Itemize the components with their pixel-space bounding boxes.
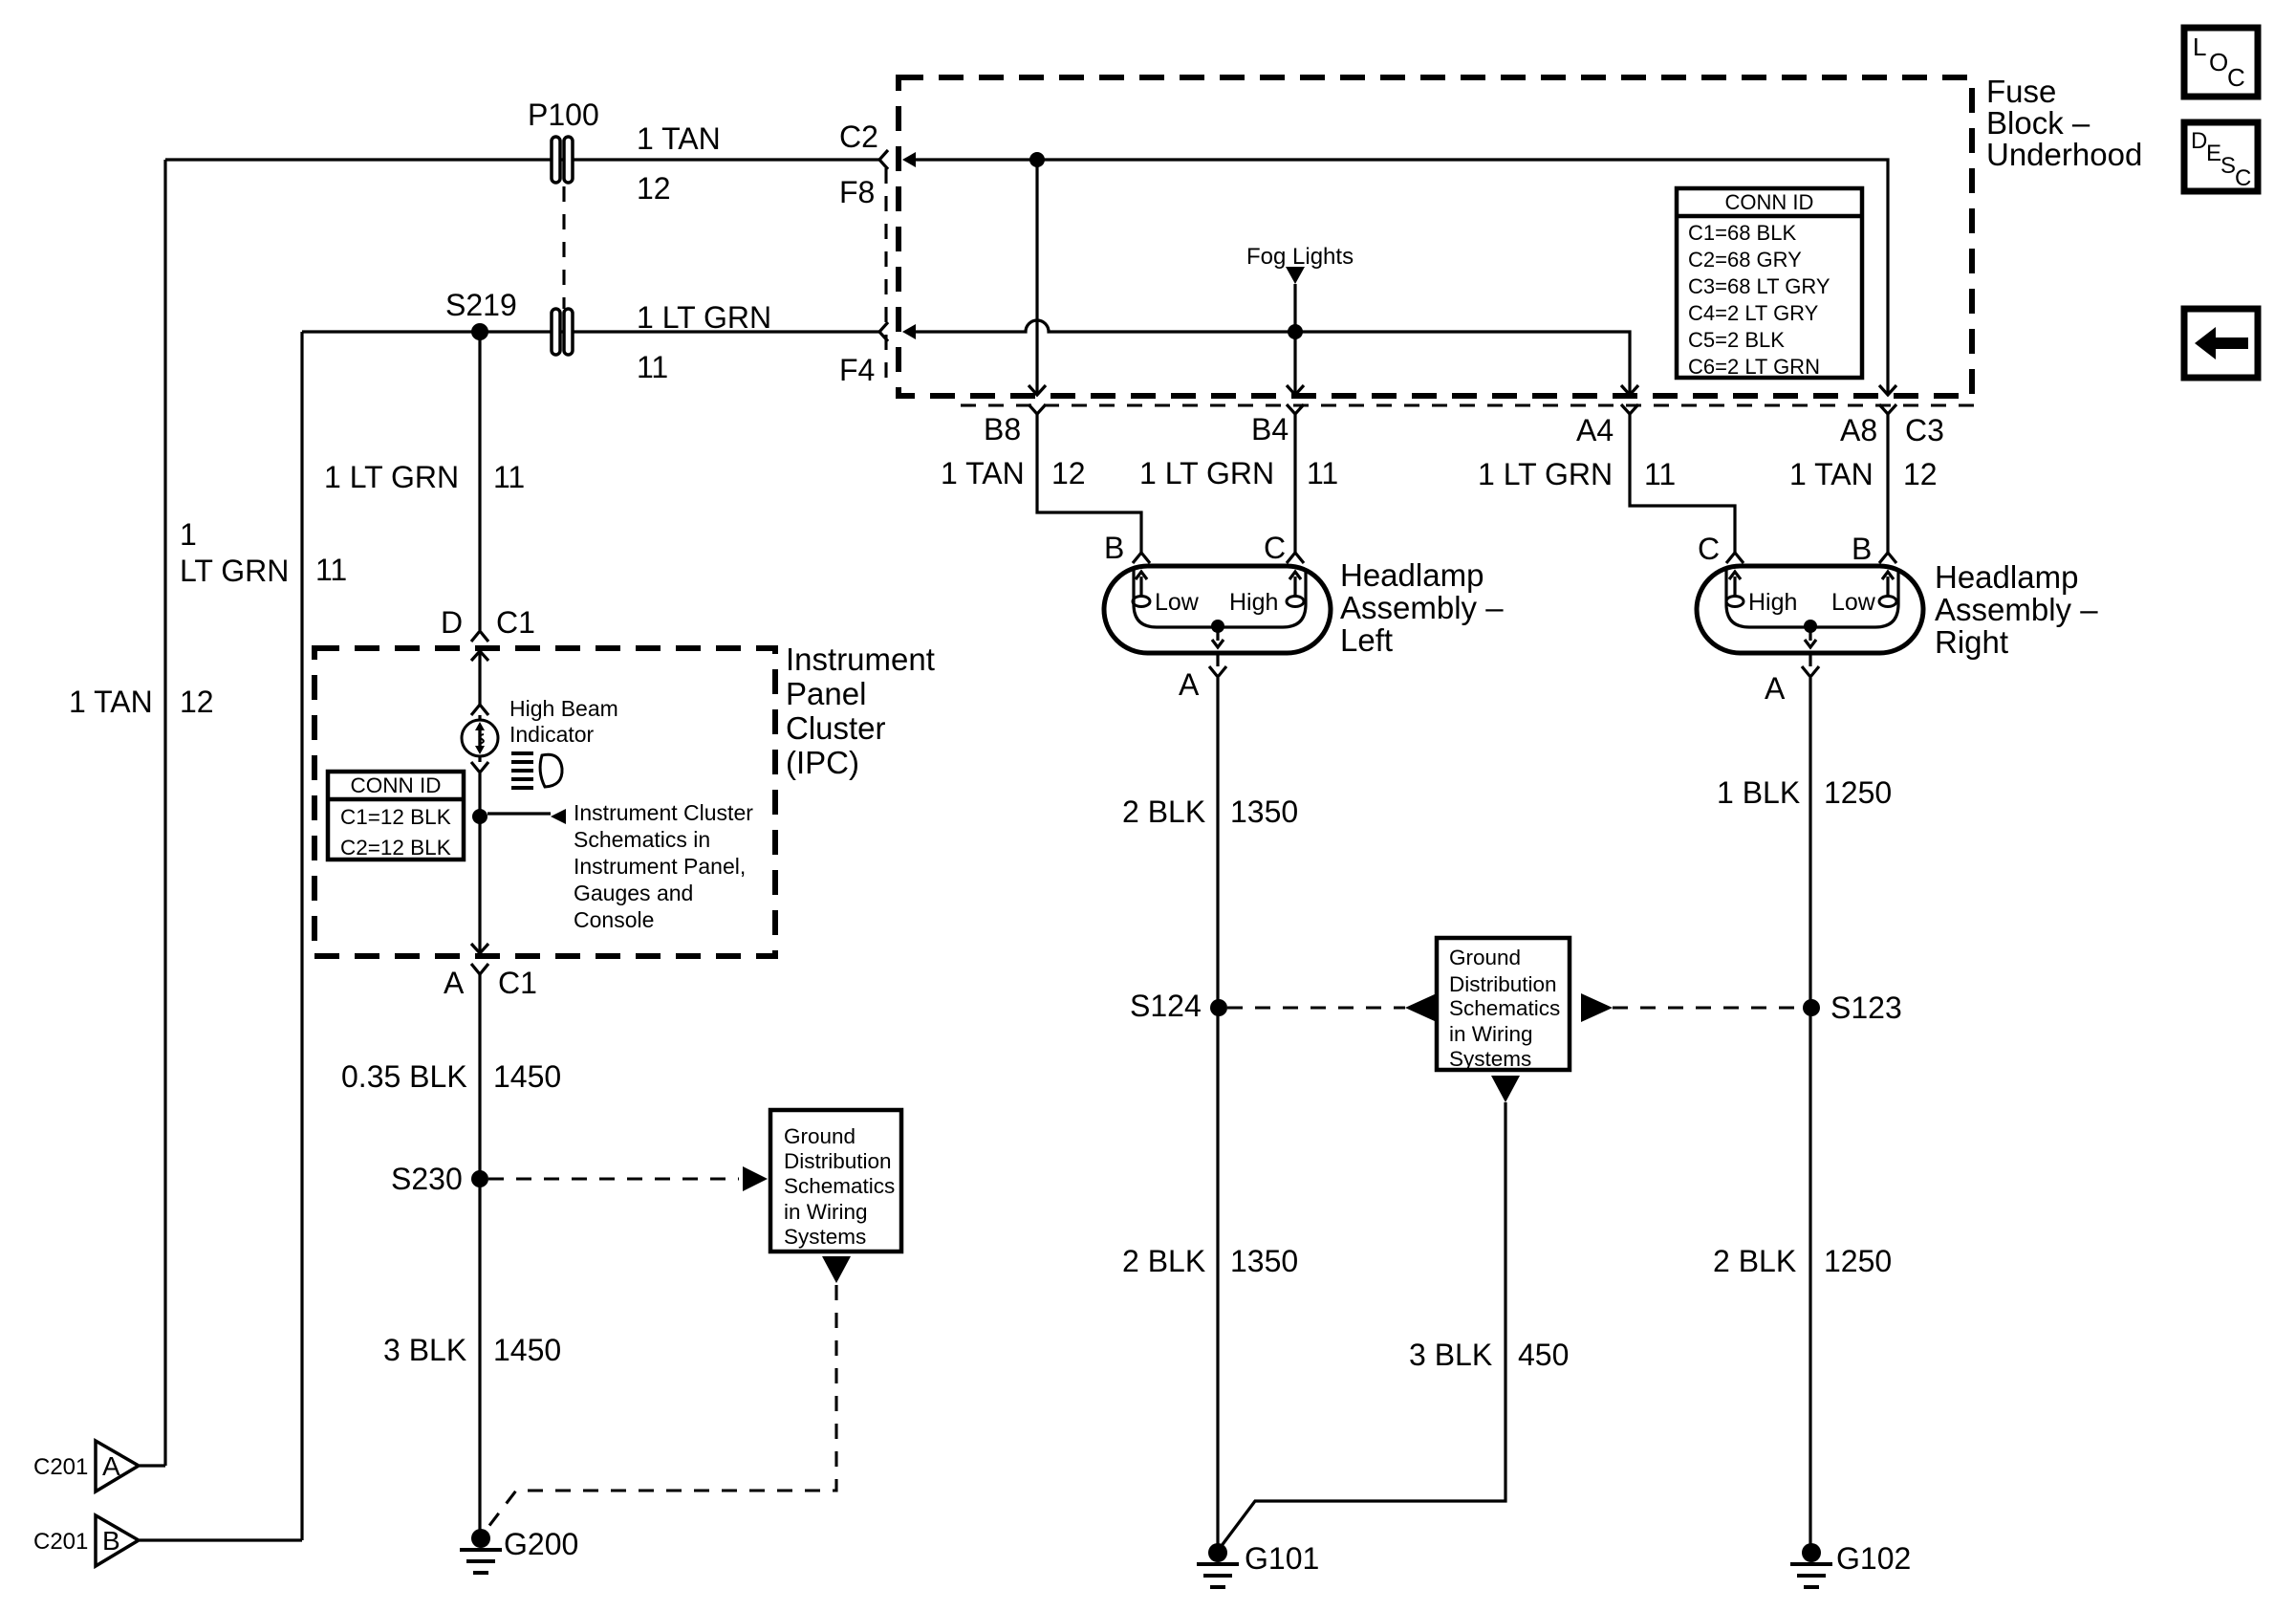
svg-text:C6=2 LT GRN: C6=2 LT GRN — [1688, 355, 1820, 379]
svg-text:1450: 1450 — [493, 1059, 561, 1094]
svg-text:B4: B4 — [1251, 412, 1289, 446]
svg-text:Block –: Block – — [1986, 105, 2090, 141]
svg-text:Console: Console — [574, 907, 654, 932]
svg-text:C: C — [2235, 165, 2251, 191]
svg-text:High Beam: High Beam — [509, 696, 618, 721]
svg-text:LT GRN: LT GRN — [180, 554, 289, 588]
svg-text:G101: G101 — [1245, 1541, 1319, 1576]
svg-text:C1=68 BLK: C1=68 BLK — [1688, 221, 1796, 245]
svg-text:A: A — [102, 1451, 120, 1481]
svg-text:11: 11 — [315, 553, 347, 587]
svg-text:C5=2 BLK: C5=2 BLK — [1688, 328, 1785, 352]
svg-text:Cluster: Cluster — [786, 710, 886, 746]
svg-text:Low: Low — [1155, 589, 1200, 616]
svg-text:S: S — [2220, 153, 2236, 179]
svg-text:Indicator: Indicator — [509, 722, 595, 747]
svg-text:C1: C1 — [498, 966, 537, 1000]
svg-text:Headlamp: Headlamp — [1935, 559, 2078, 595]
svg-text:High: High — [1229, 589, 1278, 616]
svg-text:Headlamp: Headlamp — [1340, 557, 1484, 593]
svg-text:L: L — [2193, 33, 2206, 61]
svg-text:Distribution: Distribution — [784, 1149, 892, 1173]
svg-text:S219: S219 — [445, 288, 517, 322]
svg-text:CONN ID: CONN ID — [1725, 190, 1814, 214]
svg-text:Ground: Ground — [1449, 946, 1521, 969]
svg-text:Assembly –: Assembly – — [1935, 592, 2098, 627]
svg-text:D: D — [2191, 128, 2207, 154]
svg-text:C1: C1 — [496, 605, 535, 640]
svg-text:1 TAN: 1 TAN — [941, 456, 1025, 490]
svg-text:0.35 BLK: 0.35 BLK — [341, 1059, 467, 1094]
svg-text:S124: S124 — [1130, 989, 1202, 1023]
svg-text:Instrument Panel,: Instrument Panel, — [574, 854, 746, 879]
svg-text:A8: A8 — [1840, 413, 1877, 447]
svg-text:1 LT GRN: 1 LT GRN — [637, 300, 771, 335]
svg-text:C2: C2 — [839, 120, 878, 154]
svg-text:450: 450 — [1518, 1338, 1569, 1372]
svg-text:A: A — [1179, 667, 1200, 702]
svg-text:High: High — [1748, 589, 1797, 616]
svg-text:Instrument: Instrument — [786, 642, 935, 677]
svg-text:1 LT GRN: 1 LT GRN — [1478, 457, 1613, 491]
svg-text:Systems: Systems — [784, 1225, 866, 1249]
svg-text:3 BLK: 3 BLK — [1409, 1338, 1492, 1372]
svg-text:B: B — [1852, 532, 1872, 566]
svg-text:Ground: Ground — [784, 1124, 856, 1148]
svg-text:Schematics in: Schematics in — [574, 827, 710, 852]
svg-text:2 BLK: 2 BLK — [1122, 795, 1205, 829]
svg-text:1 TAN: 1 TAN — [637, 121, 721, 156]
svg-text:Systems: Systems — [1449, 1047, 1531, 1071]
svg-text:Right: Right — [1935, 624, 2008, 660]
svg-text:C: C — [2227, 63, 2245, 92]
svg-text:C: C — [1698, 532, 1720, 566]
svg-text:2 BLK: 2 BLK — [1122, 1244, 1205, 1278]
svg-text:1350: 1350 — [1230, 795, 1298, 829]
svg-text:12: 12 — [180, 685, 214, 719]
svg-text:C3: C3 — [1905, 413, 1944, 447]
svg-text:Assembly –: Assembly – — [1340, 590, 1504, 625]
svg-text:Schematics: Schematics — [784, 1174, 895, 1198]
svg-text:G102: G102 — [1836, 1541, 1911, 1576]
svg-text:F4: F4 — [839, 353, 875, 387]
svg-text:1250: 1250 — [1824, 775, 1892, 810]
svg-text:1250: 1250 — [1824, 1244, 1892, 1278]
svg-text:P100: P100 — [528, 98, 599, 132]
svg-text:C4=2 LT GRY: C4=2 LT GRY — [1688, 301, 1819, 325]
svg-text:C201: C201 — [33, 1529, 88, 1555]
svg-text:1350: 1350 — [1230, 1244, 1298, 1278]
svg-text:12: 12 — [637, 171, 671, 206]
svg-text:11: 11 — [1644, 457, 1676, 491]
svg-text:1 TAN: 1 TAN — [69, 685, 153, 719]
svg-text:Distribution: Distribution — [1449, 972, 1557, 996]
svg-text:A: A — [444, 966, 465, 1000]
svg-text:11: 11 — [637, 350, 668, 384]
svg-text:1 LT GRN: 1 LT GRN — [324, 460, 459, 494]
svg-text:F8: F8 — [839, 175, 875, 209]
svg-text:C2=12 BLK: C2=12 BLK — [340, 836, 451, 860]
svg-text:B: B — [1104, 531, 1124, 565]
svg-text:C1=12 BLK: C1=12 BLK — [340, 805, 451, 829]
svg-text:Low: Low — [1831, 589, 1876, 616]
svg-text:Left: Left — [1340, 622, 1393, 658]
svg-text:A: A — [1765, 671, 1786, 706]
svg-text:3 BLK: 3 BLK — [383, 1333, 466, 1367]
svg-text:Gauges and: Gauges and — [574, 881, 693, 905]
svg-text:in Wiring: in Wiring — [1449, 1022, 1533, 1046]
svg-text:1450: 1450 — [493, 1333, 561, 1367]
svg-text:1 TAN: 1 TAN — [1789, 457, 1874, 491]
svg-text:12: 12 — [1903, 457, 1938, 491]
svg-text:Underhood: Underhood — [1986, 137, 2142, 172]
svg-text:Fog Lights: Fog Lights — [1246, 244, 1354, 270]
svg-text:C: C — [1264, 531, 1286, 565]
svg-text:S123: S123 — [1830, 991, 1902, 1025]
svg-text:1: 1 — [180, 517, 197, 552]
svg-text:Fuse: Fuse — [1986, 74, 2056, 109]
svg-text:1 LT GRN: 1 LT GRN — [1139, 456, 1274, 490]
svg-text:B8: B8 — [984, 412, 1021, 446]
svg-text:C201: C201 — [33, 1454, 88, 1480]
svg-text:1 BLK: 1 BLK — [1717, 775, 1800, 810]
svg-text:11: 11 — [1307, 456, 1338, 490]
svg-text:O: O — [2209, 48, 2228, 76]
svg-text:C2=68 GRY: C2=68 GRY — [1688, 248, 1802, 272]
svg-text:in Wiring: in Wiring — [784, 1200, 868, 1224]
svg-text:CONN ID: CONN ID — [351, 773, 442, 797]
svg-text:Schematics: Schematics — [1449, 996, 1560, 1020]
svg-text:Panel: Panel — [786, 676, 866, 711]
svg-text:A4: A4 — [1576, 413, 1614, 447]
svg-text:Instrument Cluster: Instrument Cluster — [574, 800, 753, 825]
svg-text:B: B — [102, 1526, 120, 1556]
svg-text:D: D — [441, 605, 463, 640]
svg-text:12: 12 — [1051, 456, 1086, 490]
svg-text:(IPC): (IPC) — [786, 745, 859, 780]
svg-text:11: 11 — [493, 460, 525, 494]
svg-text:C3=68 LT GRY: C3=68 LT GRY — [1688, 274, 1830, 298]
svg-text:S230: S230 — [391, 1162, 463, 1196]
svg-text:G200: G200 — [504, 1527, 578, 1561]
svg-text:E: E — [2206, 141, 2221, 166]
svg-text:2 BLK: 2 BLK — [1713, 1244, 1796, 1278]
